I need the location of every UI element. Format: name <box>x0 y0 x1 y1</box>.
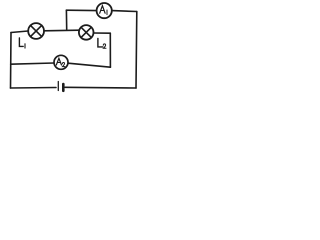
label L1 <box>19 38 25 48</box>
battery long plate (positive) <box>57 82 59 91</box>
wire: bottom rail left (to battery) <box>11 87 57 90</box>
wire: L1 right to L2 left (through node) <box>44 29 79 32</box>
wire: L2 right horizontal <box>93 32 110 34</box>
wire: right drop from L2 <box>109 33 111 67</box>
wire: A2 left to left rail <box>11 63 54 64</box>
battery short plate (negative) <box>62 84 65 91</box>
lamp L2 <box>79 25 94 40</box>
wire: top-right to ammeter A1 <box>112 10 137 13</box>
wire: bottom rail right (battery to corner) <box>65 86 136 89</box>
ammeter A2 <box>54 55 68 69</box>
label L2 <box>98 38 106 48</box>
ammeter A1 <box>97 3 112 18</box>
lamp L1 <box>28 23 44 39</box>
wire: left vertical rail <box>10 33 13 89</box>
wire: A1 left to junction <box>66 9 96 11</box>
wire: A2 right to corner <box>68 63 110 67</box>
wire: top-left corner to lamp L1 <box>11 31 28 33</box>
wire: junction vertical <box>65 10 67 29</box>
wire: right vertical rail <box>135 12 138 89</box>
